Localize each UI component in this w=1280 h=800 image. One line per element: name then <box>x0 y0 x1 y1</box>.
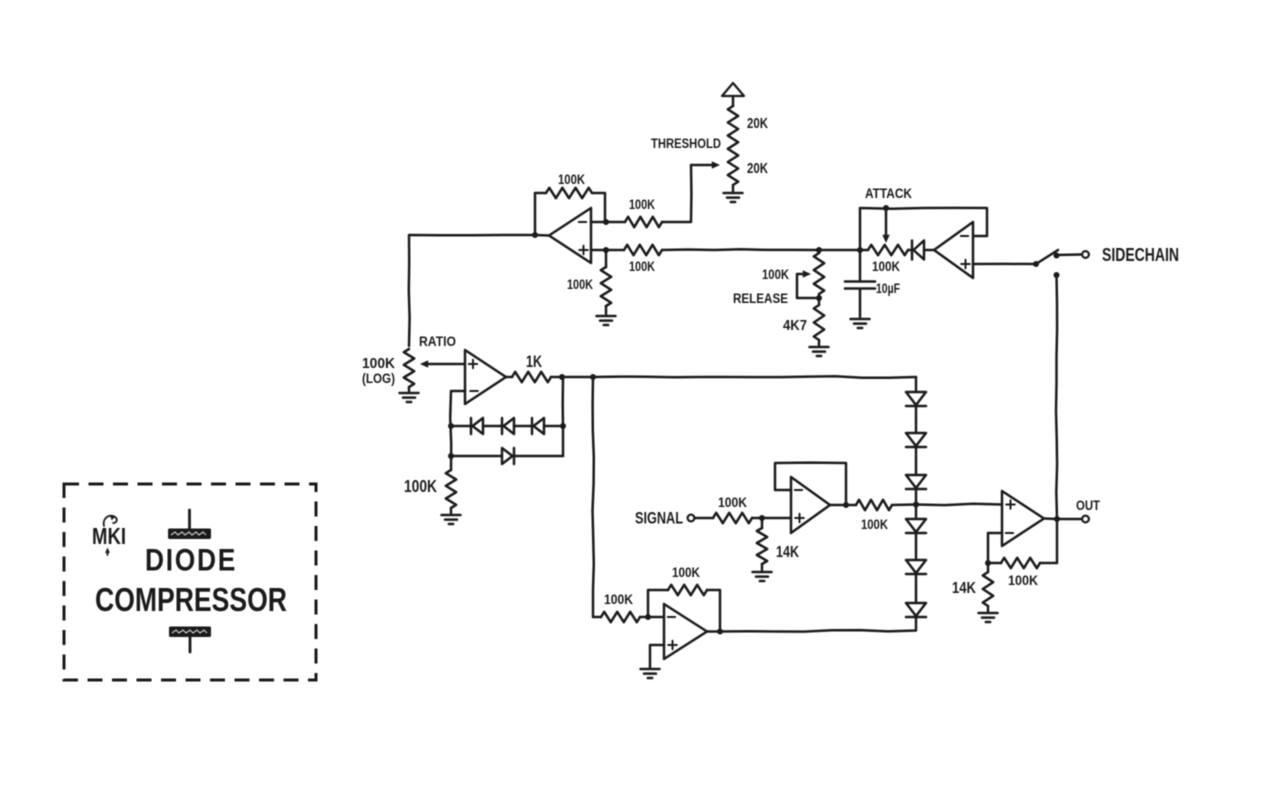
diode D10 (ladder, pointing down) <box>906 560 926 573</box>
svg-text:COMPRESSOR: COMPRESSOR <box>95 581 287 618</box>
svg-text:4K7: 4K7 <box>783 318 807 334</box>
node U6 feedback/14K junction <box>985 560 991 566</box>
logo bottom hatched bar <box>169 627 211 638</box>
resistor 100K (U1 -in to threshold wiper) <box>625 217 662 227</box>
svg-text:100K: 100K <box>762 266 789 282</box>
svg-text:100K: 100K <box>672 564 700 580</box>
diode D2 (row1, cathode left) <box>501 418 504 434</box>
wire to SIDECHAIN jack <box>1057 253 1082 256</box>
svg-text:100K: 100K <box>629 196 655 212</box>
terminal OUT (open circle) <box>1082 516 1089 523</box>
ground (14K U6) <box>979 612 998 615</box>
diode D8 (ladder, pointing down) <box>906 475 926 488</box>
terminal SIGNAL (open circle) <box>688 515 695 522</box>
resistor 1K <box>506 376 512 379</box>
logo MKI curl decoration <box>104 516 117 526</box>
wire 1K node to signal bus <box>562 376 593 379</box>
node signal bus tap <box>590 374 596 380</box>
wire attack feedback loop <box>860 208 987 250</box>
ground (U3 100K) <box>442 514 461 517</box>
node U5 output <box>717 629 723 635</box>
wire signal input <box>695 517 714 520</box>
diode D11 (ladder, pointing down) <box>906 603 926 616</box>
wire diode row2 left segment <box>451 455 502 458</box>
svg-text:10µF: 10µF <box>876 281 900 296</box>
wire ladder seg 2-3 <box>915 447 918 475</box>
switch lever (sidechain select) <box>1036 250 1058 264</box>
logo MKI small up arrow <box>107 550 109 555</box>
diode D9 (ladder, pointing down) <box>906 519 926 532</box>
svg-text:100K: 100K <box>362 356 395 372</box>
wire U1 output to RATIO pot <box>409 235 549 346</box>
resistor 14K (U4 +in to ground) <box>761 518 764 528</box>
node after 1K <box>559 374 565 380</box>
wire U6 feedback left leg <box>988 533 1002 563</box>
op-amp U6 (right-pointing, output) <box>1002 491 1044 546</box>
resistor 4K7 <box>818 298 821 305</box>
wire U1 feedback left leg <box>535 193 546 235</box>
wire U5 output to diode ladder bottom <box>707 617 916 632</box>
wire signal bus down to U5 <box>593 377 602 617</box>
svg-text:100K: 100K <box>567 276 593 292</box>
potentiometer RELEASE 100K <box>818 250 821 253</box>
terminal SIDECHAIN (open circle) <box>1082 251 1089 258</box>
node U5 -in <box>645 614 651 620</box>
wire U1 feedback right leg <box>592 193 605 221</box>
capacitor 10uF <box>859 250 862 280</box>
wire ATTACK wiper arrow <box>885 208 888 235</box>
node U1 inverting input <box>603 219 609 225</box>
resistor 100K (U5 feedback) <box>668 585 707 595</box>
node switch common <box>1033 261 1039 267</box>
op-amp U2 (left-pointing) <box>934 222 973 278</box>
ground (THRESHOLD pot) <box>724 192 743 195</box>
op-amp U5 (right-pointing) <box>664 604 707 659</box>
svg-text:14K: 14K <box>952 580 976 597</box>
svg-text:DIODE: DIODE <box>145 542 237 578</box>
wire sidechain bus <box>662 248 860 251</box>
node U1 output junction <box>532 232 538 238</box>
node release pot bottom <box>816 295 822 301</box>
node switch throw A <box>1054 253 1060 259</box>
resistor 100K (U5 -in series) <box>601 612 640 622</box>
resistor 100K (U3 -in to ground) <box>446 470 456 508</box>
svg-text:100K: 100K <box>718 494 747 510</box>
resistor 100K (U4 out series) <box>856 500 892 510</box>
wire U2 output to switch <box>973 263 1036 266</box>
wire U5 feedback left leg <box>648 590 668 617</box>
wire ladder top segment <box>915 377 918 392</box>
wire U4 output <box>830 504 856 507</box>
wire diode rows right leg <box>561 377 564 456</box>
ground (U1 +in resistor) <box>597 315 616 318</box>
ground (4K7) <box>810 346 829 349</box>
wire diode row1 left segment <box>451 425 471 428</box>
wire U4 unity feedback <box>775 463 846 505</box>
svg-text:100K: 100K <box>872 258 900 274</box>
node ladder midpoint <box>913 502 919 508</box>
ground (14K U4) <box>753 571 772 574</box>
svg-text:100K: 100K <box>861 517 888 532</box>
wire switch throw B down to OUT node <box>1056 275 1057 519</box>
svg-text:SIGNAL: SIGNAL <box>635 509 683 528</box>
svg-text:100K: 100K <box>558 171 585 187</box>
node release pot top <box>816 247 822 253</box>
svg-text:RATIO: RATIO <box>419 333 456 349</box>
resistor 100K (U1 +in series) <box>624 245 662 255</box>
resistor 100K (U6 feedback) <box>988 562 1001 565</box>
wire ladder mid to U6 +in <box>916 504 1002 505</box>
node diode row1 right <box>560 423 566 429</box>
svg-text:MKI: MKI <box>92 523 126 549</box>
diode D3 (row1, cathode left) <box>531 418 534 434</box>
node U1 non-inverting input <box>603 247 609 253</box>
wire U1 inverting input <box>591 221 625 224</box>
wire ladder seg 3-mid <box>915 489 918 519</box>
svg-text:100K: 100K <box>1008 572 1038 588</box>
svg-text:20K: 20K <box>747 161 768 177</box>
svg-text:14K: 14K <box>776 544 799 561</box>
node switch throw B <box>1054 272 1060 278</box>
node diode row1 left <box>448 423 454 429</box>
svg-text:OUT: OUT <box>1076 497 1100 513</box>
ground (RATIO pot) <box>400 392 419 395</box>
svg-text:1K: 1K <box>526 352 543 371</box>
svg-text:100K: 100K <box>604 591 633 607</box>
diode D4 (row2, cathode right) <box>513 448 516 464</box>
wire U1 non-inverting input <box>591 249 624 252</box>
node U6 output <box>1054 516 1060 522</box>
node diode row2 left <box>448 453 454 459</box>
wire RELEASE wiper to bottom (rheostat) <box>803 270 811 277</box>
resistor 100K (U1 +in to ground) <box>605 250 608 267</box>
svg-text:(LOG): (LOG) <box>362 371 395 386</box>
svg-text:SIDECHAIN: SIDECHAIN <box>1102 245 1179 265</box>
svg-text:100K: 100K <box>404 476 437 496</box>
resistor 100K (SIGNAL series) <box>713 513 752 523</box>
wire THRESHOLD wiper to U1 inverting input resistor <box>662 165 712 222</box>
wire ladder seg 1-2 <box>915 406 918 433</box>
node attack wiper tap <box>883 205 889 211</box>
svg-text:THRESHOLD: THRESHOLD <box>651 136 721 151</box>
resistor 100K (U1 feedback) <box>546 188 592 198</box>
wire U6 output to OUT jack <box>1044 517 1081 520</box>
ground (U5 +in) <box>641 668 660 671</box>
node U4 output <box>843 502 849 508</box>
ground (10uF cap) <box>851 318 870 321</box>
op-amp U3 (right-pointing) <box>465 350 506 404</box>
potentiometer ATTACK 100K <box>868 245 908 255</box>
node attack junction <box>857 247 863 253</box>
wire RATIO wiper to U3 +in <box>420 360 428 367</box>
resistor 14K (U6 to ground) <box>987 563 990 572</box>
op-amp U1 (left-pointing) <box>549 208 591 263</box>
diode D6 (ladder, pointing down) <box>906 433 926 446</box>
wire to diode ladder top <box>593 376 916 377</box>
svg-text:ATTACK: ATTACK <box>865 185 912 201</box>
node U4 +in <box>759 515 765 521</box>
diode D7 (attack, cathode left) <box>911 241 914 260</box>
svg-text:100K: 100K <box>629 258 655 274</box>
wire ladder seg 4-5 <box>915 533 918 560</box>
potentiometer THRESHOLD 20K/20K <box>728 106 738 185</box>
svg-text:RELEASE: RELEASE <box>733 291 788 306</box>
power rail arrow (top of THRESHOLD pot) <box>722 83 744 96</box>
svg-text:20K: 20K <box>747 116 768 132</box>
diode D5 (ladder, pointing down) <box>906 392 926 405</box>
logo dashed border box <box>64 484 316 680</box>
wire ladder seg 5-6 <box>915 574 918 603</box>
diode D1 (row1, cathode left) <box>470 418 473 434</box>
op-amp U4 (right-pointing, buffer) <box>791 477 830 533</box>
logo top hatched bar <box>188 510 191 528</box>
wire U3 -in to diode network <box>450 391 465 470</box>
potentiometer RATIO 100K LOG <box>404 349 414 387</box>
wire U5 +in to ground <box>650 645 664 667</box>
